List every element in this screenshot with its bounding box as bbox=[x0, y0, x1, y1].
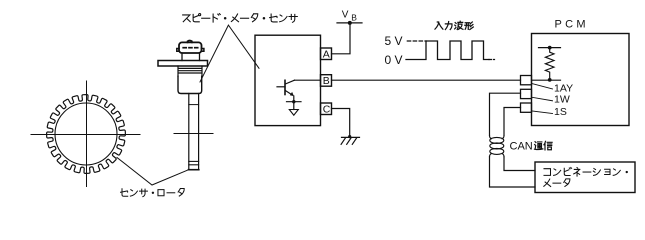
waveform 5V dashed level bbox=[407, 40, 426, 42]
VB rail bbox=[337, 22, 362, 24]
connector pin dash 3 bbox=[195, 47, 198, 49]
sensor connector right tab bbox=[202, 49, 204, 52]
svg-text:C: C bbox=[323, 103, 331, 115]
resistor R1 bottom junction dot bbox=[548, 78, 552, 82]
pin 1S leader bbox=[532, 111, 553, 114]
combination meter label line2 bbox=[544, 179, 570, 187]
connector pin dash 2 bbox=[189, 47, 192, 49]
svg-text:A: A bbox=[323, 48, 330, 60]
pin 1AY leader bbox=[532, 84, 553, 90]
resistor R1 top rail bbox=[539, 47, 561, 49]
svg-text:B: B bbox=[351, 13, 357, 23]
label speed meter sensor text bbox=[183, 14, 298, 23]
PCM pin 1W box bbox=[521, 89, 532, 98]
combination meter box bbox=[535, 162, 635, 193]
VB junction dot bbox=[348, 21, 352, 25]
wire emitter down bbox=[293, 96, 295, 110]
CAN twisted pair coils bbox=[490, 136, 505, 157]
sensor stem bbox=[189, 94, 199, 170]
ground chassis symbol bbox=[341, 137, 359, 144]
wire terminal A to VB bbox=[332, 23, 351, 54]
stem tip ring 2 bbox=[189, 164, 199, 166]
pin 1W leader bbox=[532, 97, 553, 101]
gear inner circle bbox=[55, 103, 117, 165]
wire terminal C to ground bbox=[332, 109, 350, 138]
svg-text:PCM: PCM bbox=[555, 19, 589, 31]
waveform label input bbox=[435, 21, 473, 29]
sensor neck bbox=[182, 53, 200, 61]
wire terminal B to PCM 1AY bbox=[332, 79, 521, 81]
resistor R1 top junction dot bbox=[548, 46, 552, 50]
resistor R1 zigzag bbox=[545, 48, 554, 80]
svg-text:V: V bbox=[342, 10, 349, 21]
sensor rotor gear bbox=[47, 95, 126, 174]
svg-text:CAN: CAN bbox=[510, 141, 533, 153]
wire 1W to CAN pair bbox=[490, 93, 521, 135]
transistor Q1 base stub bbox=[277, 86, 285, 88]
terminal B box bbox=[321, 75, 332, 87]
gear vertical centerline bbox=[86, 81, 88, 187]
sensor unit box U1 bbox=[255, 35, 321, 125]
stem upper joint line bbox=[189, 104, 199, 106]
transistor Q1 collector bbox=[285, 80, 294, 84]
sensor body bbox=[178, 76, 202, 93]
transistor Q1 emitter with arrow bbox=[285, 91, 292, 95]
wire collector to terminal B bbox=[295, 79, 321, 81]
svg-text:0 V: 0 V bbox=[385, 53, 403, 67]
junction dot emitter bbox=[292, 100, 295, 103]
svg-text:1W: 1W bbox=[554, 93, 570, 105]
combination meter label line1 bbox=[544, 167, 628, 176]
ground junction dot bbox=[348, 135, 351, 138]
terminal C box bbox=[321, 103, 332, 115]
stem tip bottom bbox=[189, 169, 199, 171]
wire CAN pair to meter upper bbox=[504, 157, 535, 171]
terminal A box bbox=[321, 48, 332, 60]
sensor rotor leader bbox=[117, 158, 189, 186]
connector pin dash 1 bbox=[183, 47, 186, 49]
sensor connector left tab bbox=[177, 49, 179, 52]
PCM pin 1S box bbox=[521, 103, 532, 112]
waveform square wave bbox=[406, 41, 489, 60]
PCM box bbox=[532, 34, 630, 126]
label speed meter sensor leader bbox=[200, 25, 259, 82]
sensor flange bbox=[158, 61, 208, 67]
sensor connector body bbox=[179, 42, 202, 53]
transistor Q1 base bar bbox=[284, 80, 286, 94]
wire 1AY internal bbox=[532, 79, 561, 81]
waveform trailing dashed bbox=[489, 59, 495, 61]
internal ground arrow bbox=[289, 110, 298, 116]
sensor connector top bump bbox=[188, 40, 192, 42]
gear horizontal centerline bbox=[31, 134, 140, 136]
svg-text:5 V: 5 V bbox=[385, 34, 403, 48]
wire CAN pair to meter lower bbox=[490, 157, 536, 188]
stem centerline tick bbox=[174, 133, 213, 135]
sensor rotor label text bbox=[121, 189, 185, 197]
stem tip ring 1 bbox=[189, 160, 199, 162]
PCM pin 1AY box bbox=[521, 76, 532, 85]
wire 1S to CAN pair bbox=[504, 108, 521, 136]
svg-text:1S: 1S bbox=[554, 106, 567, 118]
svg-text:B: B bbox=[323, 75, 330, 87]
sensor collar rings bbox=[178, 66, 202, 76]
emitter cross bar bbox=[287, 101, 302, 103]
